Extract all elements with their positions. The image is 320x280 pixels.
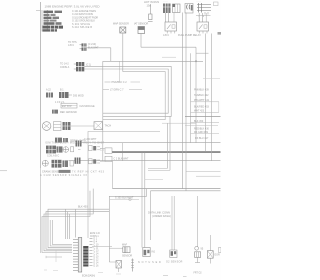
wire long horizontal y142.7 (82, 142, 221, 144)
component box beside gauge (54, 122, 62, 131)
relay coil component top-right 3 (185, 4, 193, 14)
node faint dash bottom left (53, 269, 58, 271)
footer dash 2 (183, 276, 187, 278)
ECU dark striped bar (83, 246, 88, 267)
svg-text:7X REF HI CKT 453: 7X REF HI CKT 453 (72, 170, 105, 173)
svg-text:C 1: C 1 (100, 148, 104, 151)
wire vertical pair to injector (141, 153, 143, 248)
svg-text:CONN A: CONN A (60, 66, 70, 69)
component module box with X (94, 122, 111, 130)
svg-text:A CAM SENSOR SIGNAL 3X: A CAM SENSOR SIGNAL 3X (40, 174, 87, 177)
wire stub under bundle (46, 256, 62, 258)
svg-text:BLK 450: BLK 450 (194, 120, 204, 123)
connector pair group row2 (89, 159, 105, 164)
wire pins to relay K2 (199, 13, 206, 22)
legend text column (72, 10, 98, 29)
bottom comp C with lead pair (166, 196, 183, 264)
right edge small box (219, 248, 222, 253)
relay K1 box (165, 22, 177, 31)
svg-text:D 12: D 12 (94, 260, 100, 262)
component row3 small dark box (52, 110, 77, 114)
right margin label row 7 (185, 125, 218, 130)
legend table (42, 10, 63, 32)
cluster row1 dark connectors (46, 146, 63, 154)
wire gauge to module (71, 125, 95, 127)
wire left page border vertical (40, 2, 42, 253)
relay K2 pin ticks (199, 31, 207, 33)
bottom comp D (195, 196, 204, 263)
wire dark line y116 (185, 115, 221, 117)
wire corner x146 to y196 (109, 189, 146, 262)
connector dark beside gauge (63, 122, 71, 130)
wire vertical x103 (102, 61, 104, 160)
wire vertical x211 (211, 34, 213, 161)
svg-text:C 14: C 14 (94, 254, 100, 256)
wire bus w3 (84, 69, 168, 113)
svg-text:EGR: EGR (215, 253, 220, 256)
svg-text:FUEL PUMP RELAY: FUEL PUMP RELAY (178, 34, 201, 37)
wire F2 horizontal 3 (44, 189, 93, 251)
svg-text:C 2 BLK/WHT: C 2 BLK/WHT (114, 158, 130, 161)
wire vertical x119 (119, 61, 121, 82)
wire bundle extra 1 (50, 220, 72, 246)
wire F2 horizontal 4 (42, 191, 90, 253)
svg-text:LT GRN C 7: LT GRN C 7 (110, 88, 124, 91)
wire faint x56 (55, 250, 57, 262)
connector C4 on wire y160 (75, 158, 81, 164)
svg-text:DK BLU 417: DK BLU 417 (195, 137, 209, 140)
wire C1 to corner (86, 47, 111, 49)
bottom mini connector column (131, 259, 134, 272)
svg-text:C 13: C 13 (94, 251, 100, 253)
svg-text:N O T U S E D: N O T U S E D (138, 261, 161, 264)
svg-text:BLK/RED 453: BLK/RED 453 (194, 105, 210, 108)
cluster row2 dark connectors (52, 160, 69, 168)
component right top corner mark (214, 2, 219, 6)
svg-text:COIL A B C: COIL A B C (47, 155, 59, 158)
wire S1 lead down (122, 33, 124, 72)
svg-text:D 16: D 16 (94, 266, 100, 268)
wire vertical x150 (150, 191, 152, 240)
svg-text:D 10: D 10 (94, 257, 100, 259)
svg-text:TACH: TACH (105, 124, 112, 127)
svg-text:1 0 F 2 1: 1 0 F 2 1 (55, 101, 65, 104)
wire bundle extra 2 (52, 220, 72, 244)
inline connector boxes mid wires (100, 148, 129, 162)
svg-text:IAT SENSOR: IAT SENSOR (134, 22, 149, 25)
relay K1 pin ticks (167, 31, 175, 33)
svg-text:O2 SENSOR: O2 SENSOR (166, 261, 183, 264)
svg-text:PPL/WHT 121: PPL/WHT 121 (194, 99, 210, 102)
cluster row1 small boxes (71, 147, 81, 152)
wire vertical feeder x112 (112, 161, 114, 189)
svg-text:DK GRN 459: DK GRN 459 (194, 131, 209, 134)
bottom comp A sensor (109, 243, 132, 257)
wire long horizontal y190.8 (151, 190, 221, 192)
wire F2 horizontal 2 (46, 212, 109, 250)
cluster row2 circle symbol (42, 160, 48, 166)
svg-text:FRT O2: FRT O2 (194, 273, 203, 275)
svg-text:EST BYP: EST BYP (62, 106, 72, 108)
svg-text:DATA LINK CONN: DATA LINK CONN (148, 210, 170, 214)
label row mid right 1 (105, 81, 141, 84)
svg-text:PNK/BLK C 2: PNK/BLK C 2 (112, 81, 128, 84)
svg-text:C 11: C 11 (94, 248, 99, 250)
component solenoid S1 (box with X) (113, 22, 129, 33)
connector blob top-right 1 (163, 4, 171, 14)
label circled splice mid (110, 196, 139, 200)
label row mid right 2 (103, 88, 142, 91)
svg-text:A 22: A 22 (46, 88, 51, 91)
wire stub y179 (145, 178, 163, 180)
svg-text:1989 ENGINE PERF. 3.0L V6 VIN: 1989 ENGINE PERF. 3.0L V6 VIN U FED (45, 4, 101, 8)
wire S2 lead down (140, 34, 142, 48)
component sensor S2 (half dark box) (134, 22, 149, 33)
node junction dot (195, 60, 197, 62)
wire ECU feeders from bundle (65, 209, 75, 239)
bottom comp E (207, 235, 220, 264)
component row1 connector A dark (46, 88, 64, 97)
svg-text:A B C: A B C (163, 34, 169, 37)
wire stub y123 (162, 122, 196, 124)
svg-text:IGN MODULE: IGN MODULE (80, 105, 96, 108)
svg-text:SENSOR: SENSOR (122, 255, 132, 258)
svg-text:A B C: A B C (68, 44, 74, 47)
svg-text:IGNITION COIL / MODULE ASSY T: IGNITION COIL / MODULE ASSY TO DIST (45, 141, 105, 144)
wire ECU right stub (92, 246, 112, 248)
svg-text:. . . . .: . . . . . (163, 1, 168, 3)
svg-text:WHT 423: WHT 423 (194, 110, 205, 113)
component row5 cluster (55, 138, 86, 143)
svg-text:HOT IN RUN: HOT IN RUN (144, 0, 159, 4)
wire long horizontal y160.7 (69, 160, 221, 162)
cluster row1 circle symbol (63, 147, 69, 153)
svg-text:REF GROUND: REF GROUND (60, 111, 77, 114)
footer dash 1 (163, 275, 168, 277)
bottom comp F box with X (109, 261, 121, 273)
wire crossing x122 (122, 143, 124, 161)
right margin label row 3 (191, 99, 220, 102)
svg-text:C 10: C 10 (94, 245, 100, 247)
wire vertical drop right x196 (195, 47, 197, 143)
component gauge circle (42, 122, 51, 131)
wire S2 horizontal run (141, 46, 196, 48)
svg-text:ECM (DASH): ECM (DASH) (82, 274, 95, 277)
wire bus w2 (84, 66, 171, 116)
wire corner x88 from y131 (88, 132, 160, 239)
wire bus w4 (103, 72, 165, 120)
text row under clusters 1 (42, 170, 105, 174)
relay K2 box (197, 22, 209, 31)
svg-text:D 14: D 14 (94, 263, 100, 265)
pin leader line with ticks under switch (196, 15, 211, 17)
svg-text:TAN/BLK 422: TAN/BLK 422 (194, 94, 209, 97)
wire right leaders y171 y176 (186, 171, 221, 176)
right margin label row 8 (191, 131, 220, 134)
wire long horizontal y188.6 (113, 188, 221, 190)
cluster row2 small boxes (70, 161, 73, 166)
fuse F1 with lead (144, 0, 159, 22)
ECU right pin rows with labels (90, 233, 101, 267)
wire right edge stub vertical (218, 102, 220, 113)
svg-text:S 210 SPLICE B: S 210 SPLICE B (72, 26, 92, 29)
label row2 with small box (55, 101, 95, 108)
connector C3 on long wire (76, 138, 98, 147)
connector C1 with label (68, 41, 99, 51)
wire vertical x190 (190, 53, 192, 143)
component row1 connector B dark (59, 92, 84, 98)
svg-text:. . . . .: . . . . . (196, 1, 201, 3)
bottom comp B injector (143, 248, 156, 257)
node tick left of border (36, 10, 41, 12)
wire corner drop (110, 48, 112, 62)
svg-text:ECM C-D: ECM C-D (90, 233, 100, 235)
multi-contact switch grid top-right 4 (197, 3, 211, 15)
ECU left pin ticks (73, 240, 78, 271)
wire verticals mid pair (148, 116, 170, 170)
svg-text:BLK 450: BLK 450 (78, 206, 88, 209)
svg-text:15A: 15A (147, 4, 152, 8)
wire stub y57 (162, 56, 176, 58)
connector C2 dark with label (60, 62, 91, 71)
svg-text:MAF: MAF (122, 243, 128, 246)
wire stub y53 (196, 52, 209, 54)
svg-text:(UNDER DASH): (UNDER DASH) (152, 214, 171, 218)
right margin label row 5 (191, 110, 220, 113)
left margin dash (0, 170, 7, 172)
wire thick band y152 (112, 151, 221, 153)
wire pins connector1 to relay K1 (166, 13, 175, 23)
wire long horizontal y61 (103, 60, 203, 62)
footer faint marks (44, 270, 121, 274)
svg-text:MAP SENSOR: MAP SENSOR (113, 22, 129, 25)
svg-text:DIS MOD: DIS MOD (73, 94, 84, 97)
ECU connector spine (78, 238, 81, 273)
right margin label row 6 (191, 120, 220, 123)
wire F2 horizontal 1 (48, 209, 109, 247)
label check connector block (148, 210, 171, 218)
wire vertical x205 (205, 34, 207, 152)
component box top-right 2 (173, 4, 181, 13)
wire vertical pair x182/x186 (183, 13, 186, 191)
node right edge tick (218, 32, 222, 35)
svg-text:PNK/BLK 439: PNK/BLK 439 (194, 88, 209, 91)
wire faint right top stub (203, 77, 220, 79)
connector pair group row1 (89, 146, 105, 151)
